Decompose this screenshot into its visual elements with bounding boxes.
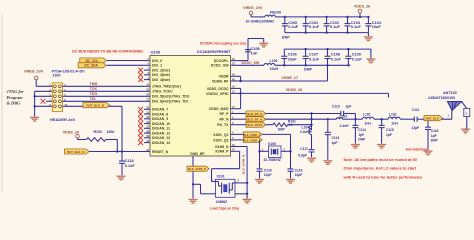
pin DIO/AN_7 U100 <box>138 107 168 112</box>
pin DIO/AN_12 U100 <box>138 130 170 135</box>
pin DCDC_SW U100 <box>211 63 237 68</box>
capacitor C118 <box>119 152 135 176</box>
power symbol VREG_2V0 header <box>24 70 43 87</box>
svg-text:DCDC_SW: DCDC_SW <box>211 64 229 68</box>
svg-text:DNP: DNP <box>304 67 312 71</box>
capacitor C103 <box>345 16 362 34</box>
net flag RST_BLE_N reset <box>65 149 90 154</box>
wire bottom cap rail row1 <box>285 32 369 34</box>
ground C116 <box>424 151 433 155</box>
svg-text:X24M_P: X24M_P <box>215 150 229 154</box>
svg-text:TDI: TDI <box>90 97 96 101</box>
svg-text:HEADER 2x5: HEADER 2x5 <box>50 117 75 122</box>
net label VDDS_26 rail <box>286 88 302 92</box>
svg-text:C116: C116 <box>431 129 439 133</box>
svg-text:0.1uF: 0.1uF <box>125 164 136 168</box>
power symbol VDDS_26 top <box>354 5 370 19</box>
svg-text:DIO/AN_11: DIO/AN_11 <box>152 127 170 131</box>
capacitor C100 <box>282 17 299 40</box>
svg-text:DIO_1: DIO_1 <box>152 64 162 68</box>
svg-text:C110: C110 <box>332 105 340 109</box>
svg-text:DIO_0: DIO_0 <box>152 59 162 63</box>
pin DIO/AN_11 U100 <box>138 126 170 131</box>
net flag BLE_RF_N <box>237 117 312 122</box>
wire RF upper leg with C110 <box>312 111 357 121</box>
annotation Load Caps on Chip <box>210 207 239 211</box>
net flag I2C_SCL <box>80 58 107 63</box>
svg-text:GND_EP: GND_EP <box>190 152 205 156</box>
svg-text:VDDS_26: VDDS_26 <box>63 130 79 134</box>
svg-text:CC2640R2FRHMT: CC2640R2FRHMT <box>197 49 231 54</box>
wire X32K_2 to crystal pin1 <box>258 140 268 153</box>
no-connect X header pin7 <box>41 99 53 104</box>
svg-text:U100: U100 <box>151 50 161 55</box>
wire X24M_P path <box>212 151 240 181</box>
svg-text:VDDS2_GPIO: VDDS2_GPIO <box>206 92 229 96</box>
pin VDDS_DCDC U100 <box>207 86 237 91</box>
svg-text:BLE_RF_N: BLE_RF_N <box>247 118 262 122</box>
svg-text:BLE_X24M_P: BLE_X24M_P <box>188 167 206 171</box>
svg-text:1pF: 1pF <box>332 141 338 145</box>
ground GND_EP <box>189 200 198 204</box>
svg-text:L102: L102 <box>389 113 397 117</box>
pin VDDS_MAD U100 <box>209 106 237 111</box>
wire I2C_SDA to DIO_1 <box>107 64 144 66</box>
svg-text:1nF: 1nF <box>251 52 258 56</box>
net flag BLE_X24M_P <box>187 166 209 171</box>
svg-text:DIO_2(hdr): DIO_2(hdr) <box>152 68 170 72</box>
svg-text:1pF: 1pF <box>346 105 352 109</box>
crystal X100 32.768KHZ <box>262 142 286 162</box>
wire row1 to ground <box>367 33 369 37</box>
ground row2 caps <box>366 59 375 63</box>
net flag RST_BLE_N header pin10 <box>67 103 122 108</box>
pin DCOUPL U100 <box>214 58 237 63</box>
net label BLE_X24M_N vertical <box>241 155 245 174</box>
antenna ANT100 <box>447 102 469 129</box>
svg-text:TMS: TMS <box>90 82 98 86</box>
IC U100 CC2640 body <box>150 56 231 157</box>
svg-text:RESET_N: RESET_N <box>152 150 169 154</box>
net flag I2C_SDA <box>78 63 106 68</box>
svg-text:RF_P: RF_P <box>220 112 230 116</box>
svg-text:DIO_3(hdr): DIO_3(hdr) <box>152 73 170 77</box>
capacitor C113 1pF shunt <box>325 119 340 160</box>
svg-text:VREG_2V0: VREG_2V0 <box>243 6 262 10</box>
svg-text:RX_TX: RX_TX <box>217 123 229 127</box>
svg-text:C115: C115 <box>386 128 394 132</box>
pin VDDS2_GPIO U100 <box>206 91 236 96</box>
capacitor C114 1pF DNP shunt <box>352 119 366 143</box>
svg-text:R100: R100 <box>94 130 102 134</box>
pin GND_EP U100 <box>190 152 205 199</box>
svg-text:X100: X100 <box>268 142 276 146</box>
svg-text:BLE_X32K_1: BLE_X32K_1 <box>243 133 261 137</box>
capacitor C109 <box>345 48 362 67</box>
pin DIO_5(hdr)/JTAG_TDO U100 <box>144 94 190 99</box>
svg-text:DIO/AN_8: DIO/AN_8 <box>152 112 168 116</box>
capacitor C117 6.8pF <box>298 135 314 158</box>
svg-text:10uH: 10uH <box>270 67 279 71</box>
svg-text:ANT_BLE: ANT_BLE <box>426 117 439 121</box>
svg-text:VDDR_17: VDDR_17 <box>281 76 298 80</box>
svg-text:I2C_SDA: I2C_SDA <box>84 64 98 68</box>
svg-text:Program: Program <box>7 95 24 100</box>
label CC2640R2FRHMT <box>197 49 231 54</box>
wire crystal case pin to gnd riser <box>235 193 247 195</box>
label HEADER 2x5 <box>50 117 75 122</box>
node RF junction column <box>310 112 312 130</box>
svg-text:I2C BUS NEEDS TO BE RE-CONFIGU: I2C BUS NEEDS TO BE RE-CONFIGURED <box>72 50 143 54</box>
inductor L104 2.4nH shunt <box>300 126 311 135</box>
svg-text:0.1uF: 0.1uF <box>331 57 342 61</box>
pin RF_P U100 <box>220 111 237 116</box>
svg-text:6.8pF: 6.8pF <box>298 153 307 157</box>
svg-text:DIO_5(hdr)/JTAG_TDO: DIO_5(hdr)/JTAG_TDO <box>152 95 190 99</box>
pin VDDR_RF U100 <box>212 78 237 83</box>
capacitor C120 12pF <box>257 151 272 178</box>
wire header gnd pins 3 5 9 <box>33 91 52 116</box>
wire RST riser <box>121 106 123 152</box>
ground DCOUPL <box>259 43 268 47</box>
pin RESET_N U100 <box>144 149 169 154</box>
wire RF main line lower <box>312 118 356 120</box>
svg-text:32.768KHZ: 32.768KHZ <box>264 158 281 162</box>
resistor R100 100k <box>78 130 119 153</box>
svg-text:24MHZ: 24MHZ <box>216 200 228 204</box>
net flag BLE_X32K_2 <box>237 137 263 142</box>
pin wire VDDS_DCDC + VDDS2_GPIO tie <box>237 88 242 94</box>
capacitor C119 12pF <box>288 151 303 178</box>
svg-text:DIO_4(hdr): DIO_4(hdr) <box>152 78 170 82</box>
wire L100 to VDDR node rail <box>275 64 351 66</box>
svg-text:DNP: DNP <box>431 138 439 142</box>
svg-text:12pF: 12pF <box>412 126 420 130</box>
ground C113 <box>323 161 332 165</box>
annotation antenna note <box>343 157 424 180</box>
svg-text:X101: X101 <box>217 174 225 178</box>
pin X24M_P U100 <box>215 149 236 154</box>
pin DIO/AN_13 U100 <box>138 135 170 140</box>
capacitor C108 <box>325 48 342 67</box>
node C115 branch <box>374 118 388 120</box>
svg-text:BLE_X32K_2: BLE_X32K_2 <box>243 138 261 142</box>
annotation DCOUPL red <box>200 41 246 45</box>
annotation JTAG for Program & DBG <box>6 89 24 106</box>
ground antenna pin2 <box>461 129 470 133</box>
svg-text:C109: C109 <box>352 52 361 56</box>
svg-text:0.1uF: 0.1uF <box>309 25 320 29</box>
svg-text:I2C_SCL: I2C_SCL <box>85 59 98 63</box>
svg-text:VDDS_MAD: VDDS_MAD <box>209 107 229 111</box>
net label DCDC_SW <box>242 61 260 65</box>
svg-text:L104: L104 <box>301 126 309 130</box>
svg-text:VREG_2V0: VREG_2V0 <box>24 70 43 74</box>
svg-text:10uF: 10uF <box>288 57 298 61</box>
svg-text:DCOUPL=decoupling use only: DCOUPL=decoupling use only <box>200 41 246 45</box>
wire I2C_SCL to DIO_0 <box>107 60 144 62</box>
power symbol VDDS_26 reset <box>63 130 80 139</box>
svg-text:0.1uF: 0.1uF <box>309 57 320 61</box>
svg-text:with R used to tune for better: with R used to tune for better performan… <box>343 174 424 179</box>
svg-text:JTAG for: JTAG for <box>6 89 24 94</box>
svg-text:JTAG_TMSC(hdr): JTAG_TMSC(hdr) <box>152 85 181 89</box>
svg-text:VDDR: VDDR <box>219 75 229 79</box>
svg-text:DIO/AN_7: DIO/AN_7 <box>152 108 168 112</box>
svg-text:Ohm impedance. Ant LC values: Ohm impedance. Ant LC values to start <box>344 166 417 171</box>
svg-text:X24M_N: X24M_N <box>215 145 229 149</box>
ground C117 <box>307 158 316 162</box>
header pin stubs right <box>63 86 68 106</box>
svg-text:DIO/AN_9: DIO/AN_9 <box>152 117 168 121</box>
svg-text:12pF: 12pF <box>264 173 272 177</box>
svg-text:C118: C118 <box>125 159 134 163</box>
annotation Ant matching <box>406 148 428 152</box>
svg-text:DCDC_SW: DCDC_SW <box>242 61 260 65</box>
net label TDI wire <box>67 97 144 101</box>
capacitor C116 1pF DNP shunt <box>425 119 439 150</box>
inductor L100 <box>264 59 279 71</box>
svg-text:VDDR_RF: VDDR_RF <box>212 79 229 83</box>
svg-text:C120: C120 <box>264 168 272 172</box>
net label VDDR_17 <box>281 76 298 80</box>
annotation I2C red <box>72 50 143 54</box>
pin DIO/AN_14 U100 <box>138 140 170 145</box>
connector J100 header 2x5 <box>49 83 67 112</box>
label U100 <box>151 50 161 55</box>
pin DIO_2(hdr) U100 <box>138 67 170 72</box>
svg-text:L101: L101 <box>363 113 371 117</box>
svg-text:C108: C108 <box>331 52 340 56</box>
wire row2 rail to ground <box>370 49 372 58</box>
svg-text:BLE_X24M_N: BLE_X24M_N <box>241 155 245 174</box>
net label TCK wire <box>67 87 144 91</box>
capacitor C101 <box>303 16 320 34</box>
svg-text:FB100: FB100 <box>270 10 281 14</box>
wire VREG to header pin1 <box>36 85 52 87</box>
label FTSH-105-01-F-DV <box>52 70 86 74</box>
svg-text:& DBG: & DBG <box>7 101 22 106</box>
label J100 <box>52 74 60 78</box>
capacitor C115 1pF shunt <box>379 119 394 143</box>
wire top cap rail <box>285 16 369 18</box>
ground row1 caps <box>364 37 373 41</box>
svg-text:C117: C117 <box>300 147 308 151</box>
pin VDDR U100 <box>219 74 237 79</box>
wire VDDR_17 rail <box>241 80 328 82</box>
svg-text:C111: C111 <box>412 108 420 112</box>
pin X32K_Q1 U100 <box>213 132 236 137</box>
svg-text:X32K_Q1: X32K_Q1 <box>213 133 228 137</box>
power symbol VREG_2V0 top <box>243 6 262 17</box>
svg-text:Note: All ant paths must be ro: Note: All ant paths must be routed at 50 <box>344 157 417 162</box>
capacitor C102 <box>324 16 341 34</box>
wire crystal case pin left to GND_EP <box>193 184 216 194</box>
node VDDS rail top <box>284 16 286 18</box>
wire X24M_N riser <box>237 147 249 199</box>
svg-text:DNP: DNP <box>282 35 290 39</box>
wire VDDS_26 rail <box>241 93 389 97</box>
svg-text:DIO/AN_12: DIO/AN_12 <box>152 131 170 135</box>
svg-text:DIO/AN_13: DIO/AN_13 <box>152 136 170 140</box>
svg-text:TDO: TDO <box>90 92 98 96</box>
pin DIO/AN_8 U100 <box>138 111 168 116</box>
svg-text:DNP: DNP <box>358 137 366 141</box>
svg-text:C106: C106 <box>288 52 297 56</box>
svg-text:RST_BLE_N: RST_BLE_N <box>86 104 104 108</box>
svg-text:J100: J100 <box>52 74 60 78</box>
pin DIO_3(hdr) U100 <box>138 72 170 77</box>
capacitor C105 <box>245 39 260 56</box>
wire DCOUPL riser <box>237 53 249 60</box>
pin DIO_0 U100 <box>144 58 162 63</box>
svg-text:2nH: 2nH <box>365 122 372 126</box>
svg-text:C105: C105 <box>251 47 260 51</box>
svg-text:BLE_RXTX: BLE_RXTX <box>247 123 262 127</box>
svg-text:TCK: TCK <box>90 87 98 91</box>
pin X24M_N U100 <box>215 144 237 149</box>
ground header <box>30 117 39 121</box>
svg-text:JTAG_TCKC: JTAG_TCKC <box>152 90 173 94</box>
wire riser to VDDS_MAD pin <box>237 93 241 108</box>
svg-text:0.1uF: 0.1uF <box>330 25 341 29</box>
svg-text:DNP: DNP <box>278 127 286 131</box>
pin JTAG_TCKC U100 <box>144 89 173 94</box>
wire crystal pin3 to N riser <box>235 182 247 184</box>
svg-text:VDDS_26: VDDS_26 <box>286 88 302 92</box>
pin DIO_4(hdr) U100 <box>138 77 170 82</box>
svg-text:0.1uF: 0.1uF <box>288 25 299 29</box>
net flag BLE_X32K_1 <box>237 132 291 137</box>
pin DIO/AN_10 U100 <box>138 121 170 126</box>
svg-text:C107: C107 <box>309 52 318 56</box>
svg-text:VDDS_26: VDDS_26 <box>354 5 370 9</box>
ground C114 <box>351 145 360 149</box>
svg-text:ANT100: ANT100 <box>443 91 457 95</box>
ground C118 <box>117 176 126 180</box>
ferrite bead FB100 <box>246 10 282 23</box>
ground C119 <box>286 180 295 184</box>
svg-text:0.1uF: 0.1uF <box>351 25 362 29</box>
pin RX_TX U100 <box>217 122 236 127</box>
capacitor C111 12pF series <box>400 108 428 130</box>
ground X101 <box>243 199 252 203</box>
svg-text:1pF: 1pF <box>358 133 364 137</box>
label ANT100 <box>443 91 457 95</box>
svg-text:1pF: 1pF <box>431 134 437 138</box>
inductor L102 2nH <box>388 113 400 126</box>
net flag BLE_RXTX <box>237 122 273 127</box>
wire row2 top rail <box>284 48 371 50</box>
crystal X101 24MHZ <box>211 174 239 204</box>
svg-text:BLE_RF_P: BLE_RF_P <box>247 112 262 116</box>
net flag ANT_BLE <box>424 116 443 121</box>
node C116 branch / ANT_BLE <box>427 118 452 120</box>
wire VREG to FB100 <box>251 16 265 18</box>
svg-text:12pF: 12pF <box>295 173 303 177</box>
inductor L103 2.4nH <box>337 115 350 129</box>
svg-text:2.4nH: 2.4nH <box>300 130 310 134</box>
svg-text:Ant matching: Ant matching <box>406 148 428 152</box>
pin DIO_6(hdr)/JTAG_TDI U100 <box>144 99 188 104</box>
svg-text:0.1uF: 0.1uF <box>352 57 363 61</box>
pin DIO_1 U100 <box>144 63 162 68</box>
wire X32K_1 to crystal pin2 <box>281 134 292 152</box>
svg-text:C119: C119 <box>295 168 303 172</box>
wire C108 riser to VDDR rail <box>327 65 329 81</box>
wire reset row to RESET_N <box>89 151 144 153</box>
wire DCDC_SW row <box>237 64 265 66</box>
svg-text:2nH: 2nH <box>392 122 399 126</box>
svg-text:RF_N: RF_N <box>219 118 229 122</box>
net label TDO wire <box>67 92 144 96</box>
svg-text:X32K_Q2: X32K_Q2 <box>213 138 228 142</box>
svg-text:2450AT18D0100: 2450AT18D0100 <box>428 96 455 100</box>
pin X32K_Q2 U100 <box>213 137 236 142</box>
svg-text:DIO/AN_10: DIO/AN_10 <box>152 122 170 126</box>
svg-text:C114: C114 <box>358 128 366 132</box>
node C113 branch <box>327 118 329 120</box>
svg-text:L103: L103 <box>340 115 348 119</box>
wire C105 to ground <box>248 39 264 43</box>
svg-text:1pF: 1pF <box>386 133 392 137</box>
svg-text:L100: L100 <box>270 59 278 63</box>
label 2450AT18D0100 <box>428 96 455 100</box>
capacitor C107 <box>303 48 320 72</box>
svg-text:1K OHM@100MHZ: 1K OHM@100MHZ <box>246 19 275 23</box>
pin RF_N U100 <box>219 117 236 122</box>
svg-text:DCOUPL: DCOUPL <box>214 59 230 63</box>
inductor L101 2nH <box>355 113 374 126</box>
ground C115 <box>377 145 386 149</box>
svg-text:100k: 100k <box>107 130 115 134</box>
capacitor C106 <box>281 49 297 66</box>
svg-text:10uF: 10uF <box>372 25 382 29</box>
pin JTAG_TMSC(hdr) U100 <box>144 84 181 89</box>
svg-text:DIO/AN_14: DIO/AN_14 <box>152 141 170 145</box>
svg-text:C113: C113 <box>332 136 340 140</box>
svg-text:DIO_6(hdr)/JTAG_TDI: DIO_6(hdr)/JTAG_TDI <box>152 100 188 104</box>
label C110 1pF <box>332 105 351 109</box>
net flag BLE_RF_P <box>237 111 312 116</box>
svg-text:RST_BLE_N: RST_BLE_N <box>67 150 85 154</box>
capacitor C104 <box>365 16 381 33</box>
pin DIO/AN_9 U100 <box>138 116 168 121</box>
resistor R101 0.0 DNP <box>273 120 312 132</box>
ground C120 <box>255 180 264 184</box>
svg-text:VDDS_DCDC: VDDS_DCDC <box>207 87 229 91</box>
page border edge <box>1 14 3 192</box>
svg-text:2.4nH: 2.4nH <box>340 124 350 128</box>
net label TMS wire <box>67 82 144 86</box>
svg-text:Load Caps on Chip: Load Caps on Chip <box>210 207 239 211</box>
pin wire VDDR + VDDR_RF tie <box>237 76 242 82</box>
wire FB100 to cap bank rail <box>275 16 284 18</box>
